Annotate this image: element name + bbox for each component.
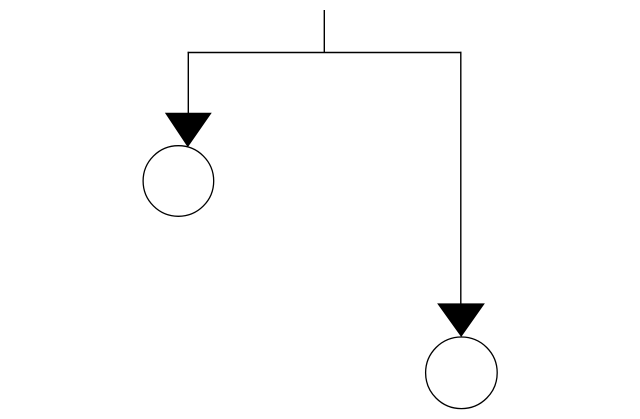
wire: right vertical edge bbox=[460, 52, 462, 308]
arrowhead: left edge bbox=[166, 113, 211, 146]
node: right circle bbox=[426, 337, 498, 409]
node: left circle bbox=[143, 146, 214, 217]
arrowhead: right edge bbox=[438, 304, 484, 336]
wire: left vertical edge bbox=[187, 52, 189, 118]
wire: horizontal branch bbox=[188, 52, 462, 54]
wire: top stub edge bbox=[323, 10, 325, 53]
